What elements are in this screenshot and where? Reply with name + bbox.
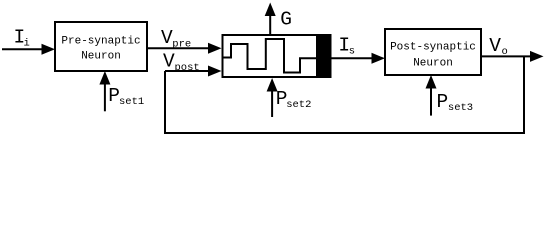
wire I_s line from memristor to post-synaptic neuron: [332, 57, 374, 59]
memristor polarity black bar: [316, 34, 332, 78]
arrowhead into pre-synaptic neuron: [42, 44, 56, 55]
block Pre-synaptic Neuron: [55, 22, 147, 71]
block Post-synaptic Neuron: [385, 29, 481, 75]
wire feedback from V_o down, along bottom, up to V_post: [165, 56, 524, 133]
svg-text:V: V: [489, 35, 501, 57]
memristor square-wave state line: [222, 39, 317, 73]
wire V_post line into memristor: [165, 70, 209, 72]
wire I_i input line: [2, 48, 43, 50]
wire P_set2 arrow into memristor bottom: [271, 89, 273, 117]
svg-text:post: post: [175, 62, 200, 74]
memristor box: [223, 35, 331, 77]
svg-text:set3: set3: [448, 102, 473, 114]
svg-text:o: o: [502, 46, 508, 58]
node I_s label: [338, 35, 355, 58]
svg-text:Pre-synaptic: Pre-synaptic: [61, 36, 140, 48]
wire P_set3 arrow into post-synaptic neuron bottom: [430, 86, 432, 116]
svg-text:Neuron: Neuron: [413, 58, 453, 70]
svg-text:pre: pre: [172, 39, 191, 51]
svg-text:set2: set2: [286, 99, 311, 111]
svg-text:Post-synaptic: Post-synaptic: [390, 42, 476, 54]
node I_i label: [14, 27, 30, 50]
svg-text:V: V: [163, 50, 175, 72]
wire V_o output line: [481, 55, 531, 57]
svg-text:V: V: [161, 27, 173, 49]
node P_set2 label: [276, 88, 312, 111]
node V_o label: [489, 35, 508, 58]
svg-text:G: G: [280, 9, 292, 31]
svg-text:P: P: [437, 91, 449, 113]
wire G arrow out of memristor top: [269, 13, 271, 34]
svg-text:i: i: [24, 38, 30, 50]
svg-text:set1: set1: [119, 96, 144, 108]
node P_set1 label: [108, 85, 144, 108]
svg-text:s: s: [349, 46, 355, 58]
node P_set3 label: [437, 91, 474, 114]
node V_post label: [163, 50, 200, 74]
svg-text:Neuron: Neuron: [81, 50, 121, 62]
wire P_set1 arrow into pre-synaptic neuron bottom: [104, 82, 106, 111]
node V_pre label: [161, 27, 191, 51]
wire V_pre line from pre-synaptic to memristor: [147, 47, 209, 49]
